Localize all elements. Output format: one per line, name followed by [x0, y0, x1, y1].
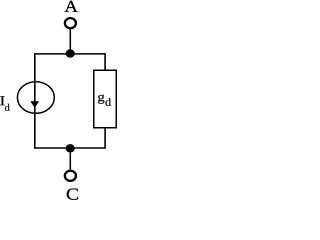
- current source I1: [17, 82, 54, 114]
- wire bottom: [34, 147, 106, 149]
- node A: [65, 1, 78, 12]
- junction dot bottom: [66, 144, 75, 152]
- wire left branch: [34, 53, 36, 149]
- conductance box gd: [94, 70, 117, 128]
- label I: [0, 96, 4, 105]
- node C: [67, 189, 78, 200]
- label g: [98, 95, 104, 104]
- wire: [69, 152, 71, 171]
- arrowhead: [30, 101, 39, 108]
- wire top: [34, 53, 106, 55]
- junction dot top: [66, 49, 75, 57]
- terminal C: [65, 171, 76, 181]
- wire right branch lower: [104, 127, 106, 149]
- wire: [69, 29, 71, 50]
- label g subscript d: [106, 98, 112, 106]
- terminal A: [65, 18, 76, 28]
- label I subscript d: [5, 104, 10, 111]
- wire right branch upper: [104, 53, 106, 71]
